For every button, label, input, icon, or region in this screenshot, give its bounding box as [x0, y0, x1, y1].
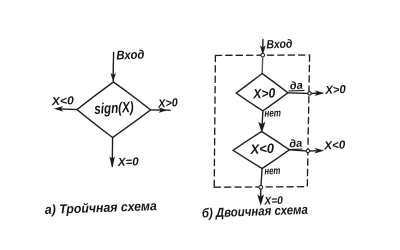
svg-text:X<0: X<0: [249, 141, 275, 157]
svg-text:нет: нет: [264, 165, 280, 178]
svg-text:X>0: X>0: [157, 97, 179, 110]
svg-text:X<0: X<0: [50, 95, 74, 108]
wire bottom output: [110, 138, 114, 168]
node circle top: [261, 53, 265, 57]
decision diamond X<0: [233, 132, 289, 169]
wire left output: [55, 107, 77, 111]
wire input left scheme: [111, 53, 115, 82]
node circle bottom: [259, 186, 263, 190]
dashed box: [214, 55, 309, 187]
wire arrow right2: [310, 149, 323, 153]
wire right output: [151, 108, 170, 112]
node circle right1: [308, 92, 311, 95]
wire arrow right1: [311, 91, 323, 95]
label да 2: [289, 138, 303, 151]
wire diamond1 to diamond2: [259, 111, 264, 132]
svg-text:Вход: Вход: [116, 48, 145, 63]
wire diamond1 to border: [288, 92, 308, 95]
label да 1: [289, 80, 304, 93]
wire input right scheme: [261, 40, 265, 54]
decision diamond X>0: [236, 74, 288, 111]
svg-text:нет: нет: [264, 107, 281, 120]
wire diamond2 to bottom border: [261, 169, 262, 186]
wire diamond2 to border: [289, 150, 306, 151]
node circle right2: [306, 149, 309, 152]
wire output X=0: [258, 189, 263, 204]
svg-text:sign(X): sign(X): [94, 99, 134, 118]
wire node to diamond1: [261, 57, 264, 73]
svg-text:X>0: X>0: [324, 84, 347, 97]
svg-text:X<0: X<0: [323, 139, 346, 152]
svg-text:б) Двоичная схема: б) Двоичная схема: [202, 202, 308, 221]
svg-text:а) Тройчная схема: а) Тройчная схема: [45, 198, 157, 217]
decision diamond sign(X): [77, 82, 151, 138]
svg-text:X>0: X>0: [252, 85, 276, 101]
svg-text:Вход: Вход: [266, 37, 292, 52]
svg-text:X=0: X=0: [117, 156, 140, 169]
